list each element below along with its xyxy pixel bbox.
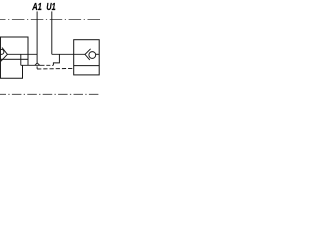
left lower section (pilot cylinder) [0, 59, 22, 78]
pilot branch wire at y65 [21, 64, 45, 66]
left valve body [0, 37, 28, 59]
svg-text:U1: U1 [46, 2, 56, 13]
dashed pilot line to right body [37, 67, 74, 70]
check valve V1 seat [1, 48, 8, 62]
right body internal divider [74, 65, 100, 67]
wire box edge down to pilot line [27, 59, 29, 65]
port line U1 [51, 11, 53, 54]
wire ball to right edge [96, 53, 100, 55]
branch wire from U1 line [53, 54, 59, 65]
bottom chain line (subplate boundary) [0, 93, 100, 95]
svg-text:A1: A1 [31, 2, 42, 13]
check valve V1 ball [0, 49, 4, 54]
top chain line (subplate boundary) [0, 19, 100, 21]
right valve body [74, 40, 100, 75]
left valve flow line [7, 53, 37, 55]
wire U1 to right valve [52, 53, 85, 55]
pilot piston caret [35, 63, 40, 65]
port line A1 [36, 11, 38, 62]
dashed pilot drop below caret [36, 66, 38, 69]
check valve V2 ball [89, 52, 96, 59]
pilot dashed segment to branch [46, 64, 53, 66]
pilot line left [20, 54, 22, 65]
check valve V2 seat [85, 49, 91, 60]
